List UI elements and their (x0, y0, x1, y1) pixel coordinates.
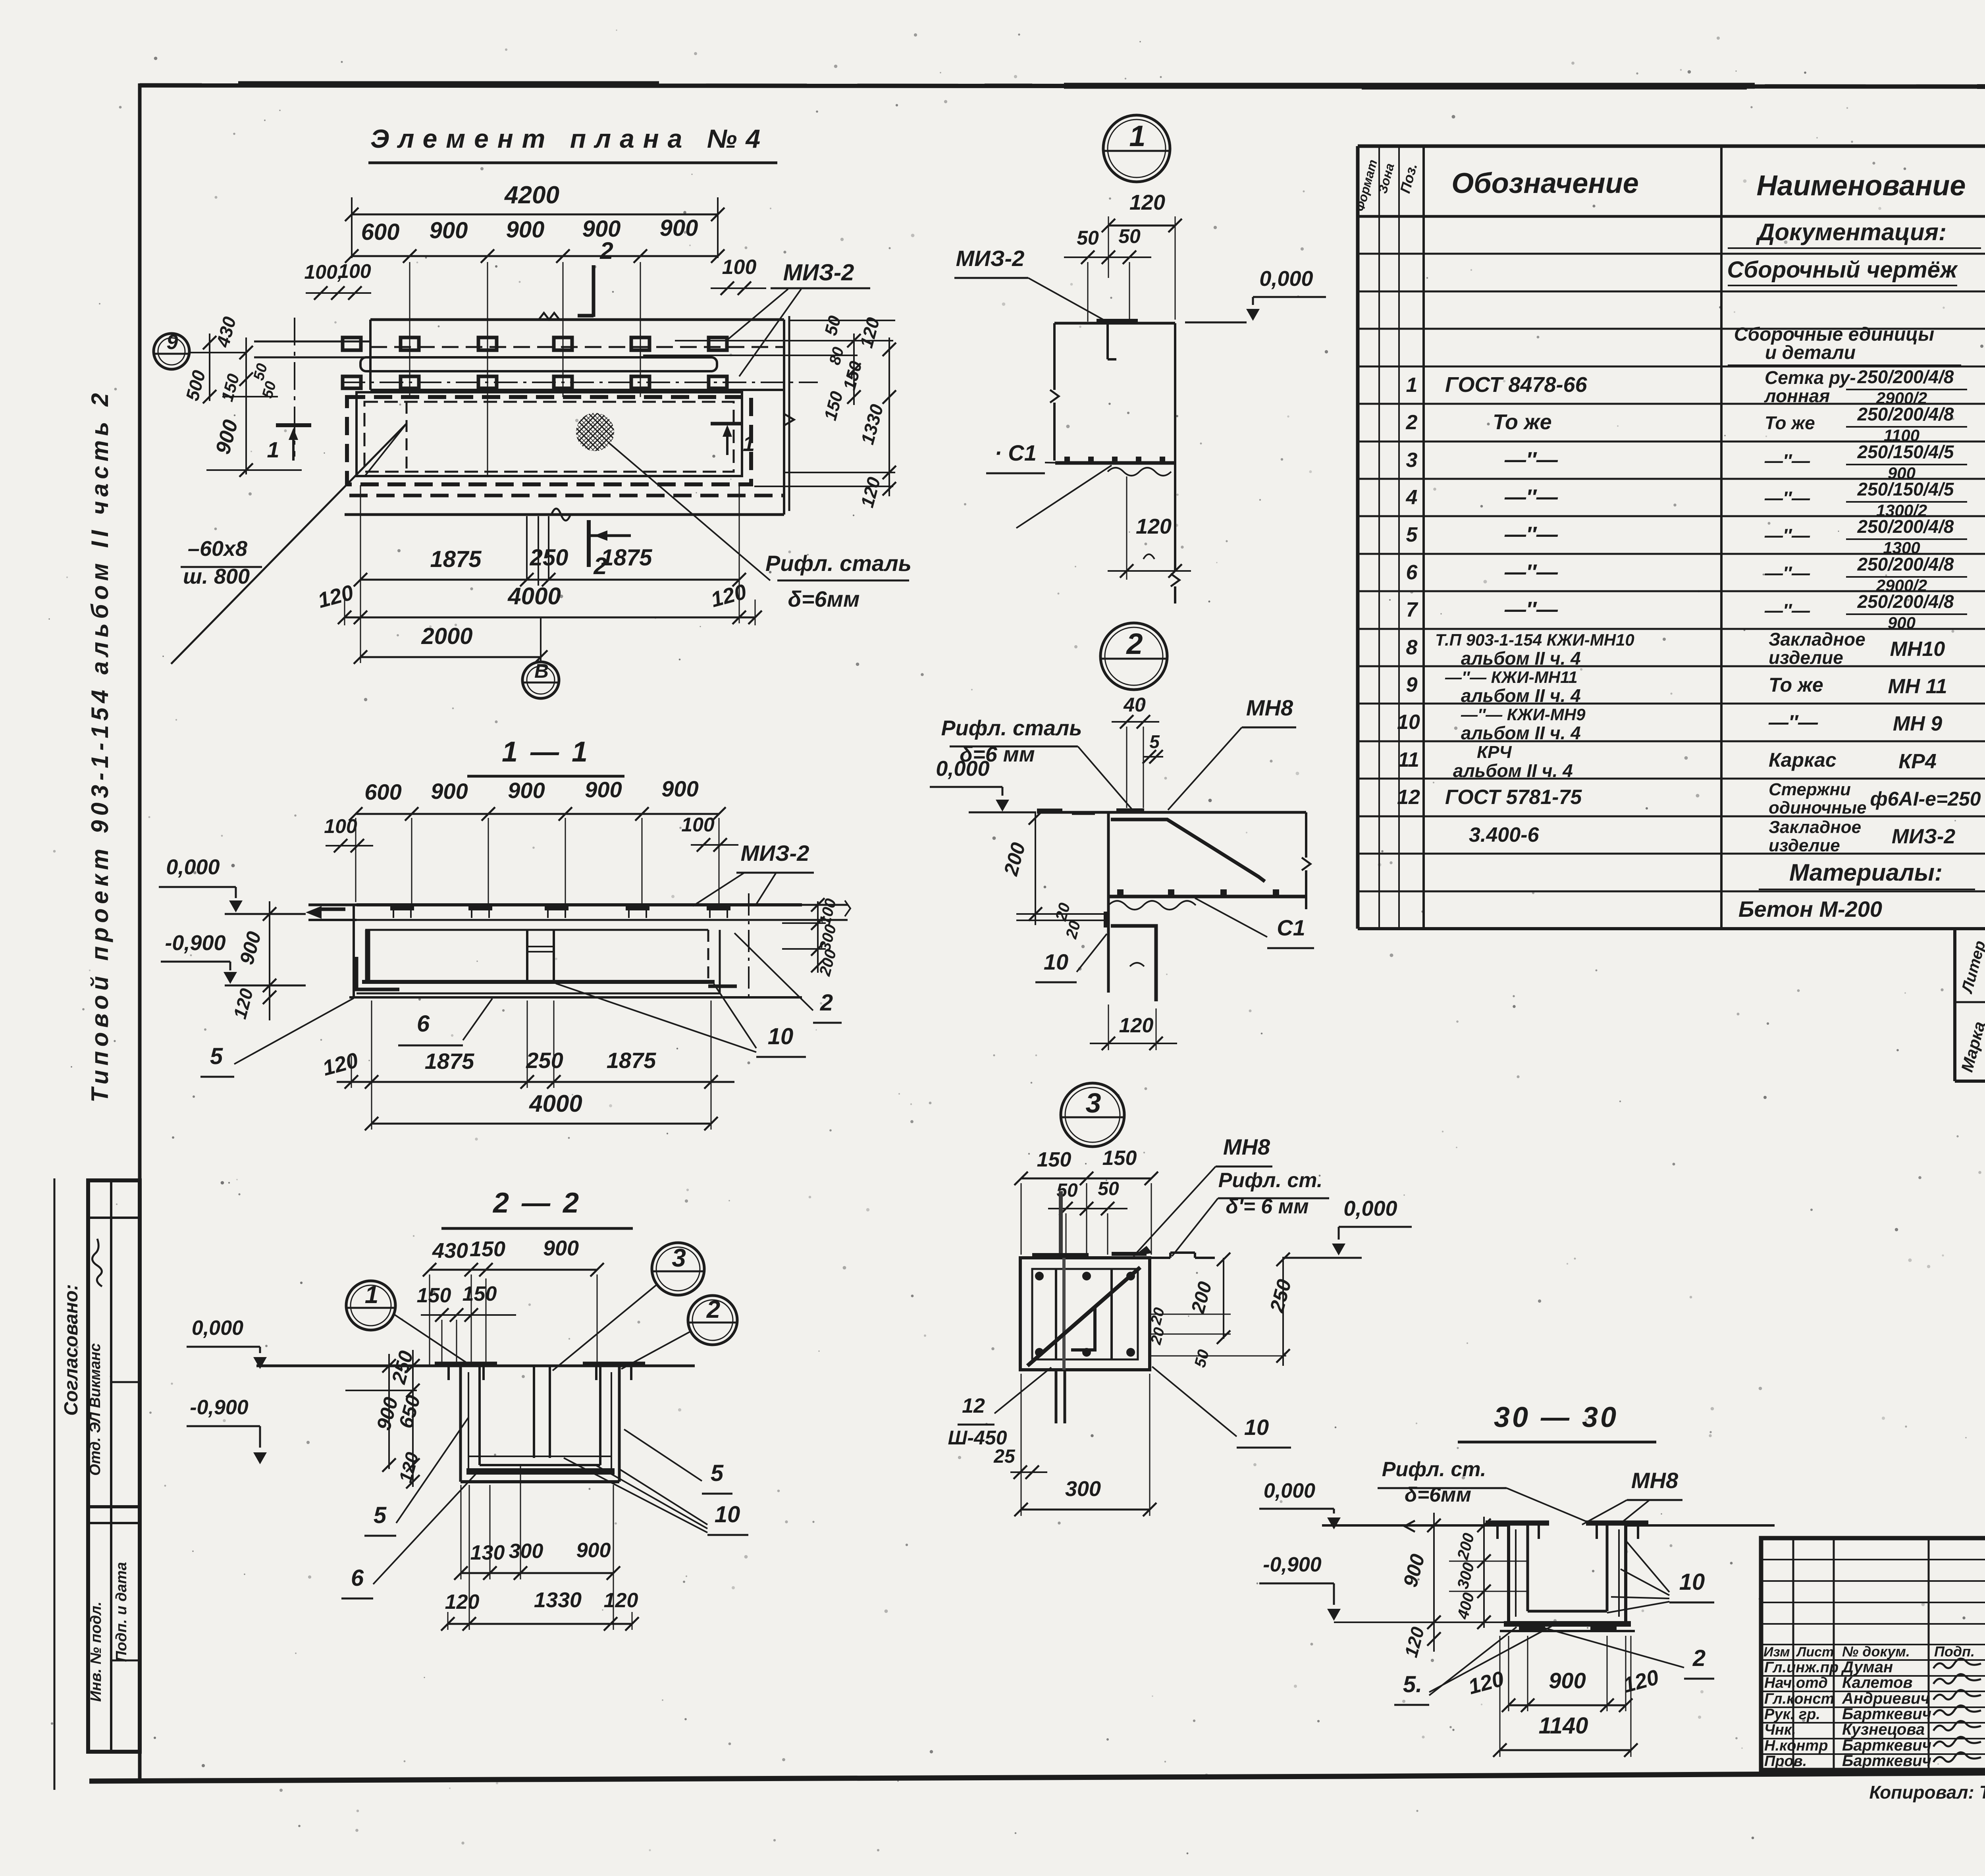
s30 level 0.000 (1259, 1479, 1341, 1529)
plan dim 2000 label (421, 623, 472, 649)
d1 dim 50 50 labels (1077, 225, 1141, 249)
s11 level -0.900 text (165, 931, 225, 955)
title block header row (1763, 1643, 1985, 1660)
s22 top plates (435, 1364, 645, 1380)
svg-text:10: 10 (1244, 1415, 1269, 1440)
svg-text:Барткевич: Барткевич (1842, 1737, 1931, 1754)
d2 leader 10 (1077, 934, 1107, 972)
s30 bottom extensions (1500, 1535, 1631, 1757)
s30 leaders МН8 (1582, 1500, 1650, 1525)
table header Поз (1397, 162, 1420, 195)
detail circle 3 (1061, 1083, 1124, 1147)
s22 left horizontals (222, 1366, 480, 1464)
axis circle В (522, 660, 559, 698)
svg-text:100,: 100, (304, 261, 343, 283)
marks label Марка (1958, 1020, 1985, 1074)
svg-text:МН 9: МН 9 (1893, 712, 1942, 735)
plan dim 600-900 labels (361, 215, 698, 245)
svg-text:Закладное: Закладное (1769, 817, 1861, 837)
table row Сборочный чертёж (1727, 257, 1958, 285)
svg-text:100: 100 (681, 814, 715, 836)
s30 label МН8 (1627, 1468, 1682, 1500)
svg-text:—″—: —″— (1764, 600, 1810, 621)
stamp text Инв № подл (88, 1602, 104, 1702)
s22 level -0.900 mark (187, 1426, 267, 1464)
s11 dim 4000 line (365, 1117, 718, 1130)
s22 level -0.900 text (190, 1396, 249, 1419)
svg-text:Кузнецова: Кузнецова (1842, 1721, 1925, 1738)
svg-text:600: 600 (364, 779, 401, 804)
svg-text:900: 900 (660, 215, 698, 241)
table row poz11 (1398, 742, 1985, 781)
detail circle 2 (1100, 623, 1167, 690)
svg-text:Сетка ру-: Сетка ру- (1765, 367, 1856, 388)
svg-text:0,000: 0,000 (192, 1317, 243, 1340)
s11 leaders 10 (556, 983, 756, 1052)
svg-text:МН8: МН8 (1246, 695, 1293, 720)
d2 leader Рифл (1078, 746, 1135, 812)
s30 leaders 10 fan (1607, 1541, 1669, 1613)
d3 level 0.000 (1332, 1197, 1412, 1255)
table row poz1 (1406, 366, 1985, 407)
svg-text:№ докум.: № докум. (1842, 1643, 1910, 1660)
s30 bottom plates (1519, 1626, 1617, 1630)
svg-text:Нач.отд: Нач.отд (1764, 1675, 1828, 1691)
s22 ground line (256, 1365, 695, 1367)
svg-text:5: 5 (711, 1460, 724, 1486)
svg-text:Подп.: Подп. (1934, 1643, 1975, 1660)
plan plates axis dashdot (341, 382, 818, 383)
d1 mesh dots (1064, 457, 1165, 462)
s11 bottom dim labels (320, 1048, 656, 1080)
frame bottom border line (89, 1770, 1985, 1781)
svg-text:4200: 4200 (504, 181, 559, 209)
svg-text:альбом II ч. 4: альбом II ч. 4 (1453, 760, 1573, 781)
plan dim extension verticals (345, 485, 755, 663)
s22 bottom dim row2 line (441, 1617, 639, 1631)
d1 wall left edge (1050, 323, 1059, 461)
s11 right dash-dot axis (748, 893, 750, 1003)
svg-text:4000: 4000 (507, 583, 561, 609)
s22 label 10 (707, 1502, 748, 1535)
plan dim 4000 label (507, 583, 561, 609)
s30 dim 1140 line (1493, 1743, 1638, 1757)
d1 wall top line (1054, 322, 1175, 325)
svg-text:1: 1 (1406, 374, 1418, 397)
svg-text:Наименование: Наименование (1757, 170, 1966, 202)
s30 lower ref line (1334, 1621, 1505, 1623)
svg-text:2000: 2000 (421, 623, 472, 649)
svg-text:Рифл. сталь: Рифл. сталь (765, 551, 912, 576)
svg-text:0,000: 0,000 (1264, 1479, 1315, 1502)
stamp text Подп и дата (113, 1562, 130, 1662)
svg-text:5: 5 (210, 1043, 223, 1069)
plan dim 100 left line (306, 286, 371, 300)
svg-text:Т.П 903-1-154 КЖИ-МН10: Т.П 903-1-154 КЖИ-МН10 (1435, 630, 1634, 649)
svg-text:МН10: МН10 (1890, 638, 1945, 661)
footer Копировал (1869, 1782, 1985, 1803)
s22 top dim line (423, 1263, 604, 1276)
table row poz5 (1406, 516, 1985, 557)
d2 slab top line (1037, 811, 1306, 814)
svg-text:одиночные: одиночные (1769, 798, 1867, 817)
svg-text:—″—: —″— (1764, 563, 1810, 583)
svg-text:Материалы:: Материалы: (1789, 859, 1943, 886)
plan lower dashed line (349, 494, 784, 497)
d2 dim 120 bottom (1090, 1005, 1177, 1050)
svg-text:Лист: Лист (1796, 1645, 1834, 1660)
svg-text:МИЗ-2: МИЗ-2 (1892, 825, 1955, 848)
s22 pit slot walls (534, 1366, 550, 1458)
svg-text:1875: 1875 (601, 545, 652, 571)
s22 bottom dim row2 labels (445, 1588, 638, 1614)
plan trench solid outline (357, 392, 742, 476)
s11 left console (306, 905, 357, 920)
svg-text:120: 120 (445, 1591, 480, 1614)
table row Бетон М-200 (1738, 895, 1985, 924)
svg-text:5.: 5. (1403, 1672, 1422, 1697)
axis circle 3 (652, 1243, 704, 1295)
svg-text:1 — 1: 1 — 1 (502, 736, 590, 768)
s11 bottom dim line (337, 1075, 734, 1089)
s30 ground line left (1322, 1524, 1509, 1527)
svg-text:30 — 30: 30 — 30 (1494, 1402, 1619, 1433)
svg-text:ГОСТ 8478-66: ГОСТ 8478-66 (1445, 373, 1588, 397)
s11 left dim vertical (263, 901, 276, 1020)
stamp text Согласовано (61, 1284, 82, 1416)
svg-text:100: 100 (722, 256, 757, 279)
s22 left dim lines (345, 1350, 420, 1488)
svg-text:10: 10 (715, 1502, 740, 1527)
s11 right dashed vertical (707, 930, 709, 982)
title block signature rows (1764, 1658, 1981, 1770)
s22 bottom extensions (448, 1465, 632, 1630)
svg-text:МН8: МН8 (1631, 1468, 1679, 1493)
d3 box outer (1020, 1258, 1150, 1370)
s30 leader 2 (1541, 1627, 1684, 1668)
table header Формат (1353, 158, 1380, 213)
svg-text:Андриевич: Андриевич (1842, 1690, 1930, 1707)
d2 leader МН8 (1168, 727, 1242, 810)
d1 dim 120 bottom (1108, 476, 1191, 580)
svg-text:250/200/4/8: 250/200/4/8 (1857, 366, 1954, 387)
detail circle 1 (1103, 115, 1170, 182)
plan right edge extension (784, 316, 794, 511)
svg-text:8: 8 (1406, 636, 1418, 659)
svg-text:0,000: 0,000 (936, 757, 989, 781)
svg-text:альбом II ч. 4: альбом II ч. 4 (1461, 723, 1581, 743)
s11 level -0.900 ref line (225, 985, 306, 987)
svg-text:Сборочный чертёж: Сборочный чертёж (1727, 257, 1958, 283)
plan leader МИЗ-2 a (727, 289, 788, 340)
s22 dim 150 150 line (421, 1308, 516, 1322)
plan title (370, 124, 769, 153)
svg-text:КР4: КР4 (1898, 750, 1937, 773)
plan section mark 2 top (578, 237, 613, 317)
svg-text:5: 5 (1406, 523, 1418, 546)
svg-text:6: 6 (351, 1565, 364, 1591)
svg-text:Каркас: Каркас (1769, 749, 1837, 771)
d3 leader 12 (994, 1367, 1051, 1413)
svg-text:2: 2 (820, 990, 833, 1016)
svg-text:0,000: 0,000 (1343, 1197, 1397, 1220)
svg-text:и детали: и детали (1765, 342, 1856, 363)
plan label МИЗ-2 (783, 260, 854, 285)
s11 grid verticals (356, 818, 719, 904)
svg-text:6: 6 (417, 1011, 430, 1037)
svg-text:50: 50 (1077, 227, 1099, 249)
svg-text:1875: 1875 (425, 1049, 474, 1074)
leader circle 2 (621, 1331, 692, 1369)
svg-text:МН 11: МН 11 (1888, 675, 1947, 698)
svg-text:Бетон М-200: Бетон М-200 (1738, 897, 1882, 922)
svg-text:альбом II ч. 4: альбом II ч. 4 (1461, 685, 1581, 706)
d3 dim 250 line (1276, 1253, 1290, 1366)
table row poz9 (1406, 668, 1985, 706)
s11 leader 2 (734, 933, 813, 1010)
s30 left dim line (1427, 1513, 1441, 1652)
section mark 1 left (267, 425, 311, 462)
s11 label 6 (398, 1011, 463, 1045)
plan hatched steel patch (576, 413, 614, 451)
d1 label МИЗ-2 (954, 246, 1028, 278)
axis 9 leader (190, 352, 246, 353)
d2 leader С1 (1195, 898, 1267, 937)
axis В stem (540, 617, 542, 662)
s22 bottom dim row1 line (454, 1566, 620, 1580)
s11 right dims rotated (816, 897, 840, 978)
s30 floor bold (1504, 1621, 1631, 1627)
svg-text:250/200/4/8: 250/200/4/8 (1857, 404, 1954, 424)
svg-text:Копировал: Тук: Копировал: Тук (1869, 1782, 1985, 1803)
s11 dim 4000 label (529, 1090, 582, 1117)
s11 leader 6 (463, 999, 492, 1040)
svg-text:10: 10 (1679, 1569, 1705, 1595)
svg-text:2 — 2: 2 — 2 (492, 1187, 581, 1219)
d3 dim 150 150 line (1014, 1172, 1158, 1185)
svg-text:250/200/4/8: 250/200/4/8 (1857, 516, 1954, 537)
s22 dim extensions top (430, 1274, 597, 1366)
s11 level -0.900 mark (161, 962, 237, 984)
svg-text:ГОСТ 5781-75: ГОСТ 5781-75 (1445, 786, 1582, 809)
plan dim 2000 line (354, 650, 547, 664)
table row poz2 (1406, 404, 1985, 445)
d1 leader МИЗ-2 (1028, 278, 1107, 322)
s11 right inner vertical (719, 930, 721, 993)
stamp text Отд ЭЛ (87, 1343, 104, 1476)
d1 leader C1 diag (1016, 465, 1112, 528)
s11 label 10 (756, 1024, 806, 1057)
svg-text:δ=6мм: δ=6мм (788, 586, 860, 611)
d3 rebar dots (1035, 1272, 1135, 1357)
s11 pit floor top bold (362, 980, 715, 984)
marks label Литер (1958, 939, 1985, 995)
svg-text:ф6АI-е=250: ф6АI-е=250 (1870, 788, 1981, 810)
svg-text:—″—: —″— (1504, 560, 1558, 584)
plan long embed bar (360, 357, 717, 371)
s22 label 5 left (364, 1502, 396, 1536)
frame left border line (138, 83, 142, 1781)
svg-text:600: 600 (361, 219, 400, 245)
svg-text:7: 7 (1406, 598, 1418, 621)
svg-text:МИЗ-2: МИЗ-2 (741, 841, 809, 866)
s30 label 10 (1669, 1569, 1714, 1602)
d2 label С1 (1267, 915, 1314, 948)
plan bottom break mark (551, 509, 570, 521)
svg-text:—″—: —″— (1504, 485, 1558, 509)
svg-text:То же: То же (1493, 410, 1552, 434)
svg-text:Согласовано:: Согласовано: (61, 1284, 82, 1416)
svg-text:0,000: 0,000 (1259, 267, 1313, 291)
s11 label МИЗ-2 underline (736, 872, 814, 874)
d1 dim 120 bottom label (1136, 515, 1172, 538)
plan grid axis line 1-1 cut (294, 318, 295, 457)
d3 small dim lines (1150, 1314, 1286, 1356)
svg-text:900: 900 (1888, 613, 1916, 632)
svg-text:1875: 1875 (607, 1048, 656, 1073)
svg-text:2: 2 (599, 237, 613, 264)
svg-text:300: 300 (509, 1540, 543, 1563)
svg-text:900: 900 (543, 1236, 579, 1260)
plan right dim outer line (883, 337, 896, 496)
d1 wall right edge (1171, 323, 1179, 603)
plan label Рифл сталь (765, 551, 912, 611)
plan dim 1875-250-1875 labels (430, 545, 652, 572)
d3 label 12 (948, 1394, 1007, 1449)
plan bottom line (345, 513, 784, 516)
d3 diagonal bar (1027, 1267, 1140, 1366)
d3 dim 300 (1014, 1374, 1156, 1516)
plan right edge (783, 320, 785, 515)
s11 dim line 600-900 (349, 807, 726, 821)
svg-text:Барткевич: Барткевич (1842, 1705, 1931, 1723)
svg-text:2: 2 (1406, 411, 1418, 434)
svg-text:250/200/4/8: 250/200/4/8 (1857, 554, 1954, 575)
svg-text:12: 12 (962, 1394, 985, 1417)
svg-text:300: 300 (1065, 1477, 1101, 1501)
table row poz3 (1406, 442, 1985, 482)
s30 pit bottom (1528, 1610, 1607, 1613)
d3 inner verticals (1056, 1269, 1112, 1359)
s11 middle slot (527, 930, 554, 982)
s11 dim 900 rotated (235, 929, 266, 967)
s11 dim 100 lines (326, 838, 738, 852)
d3 dim extensions (1021, 1183, 1151, 1255)
plan trench dashed partition (406, 402, 408, 476)
svg-text:Чнк.: Чнк. (1764, 1722, 1796, 1738)
s30 leader Рифл (1469, 1488, 1592, 1524)
s22 leader 6 (373, 1469, 480, 1584)
svg-text:—″—: —″— (1764, 488, 1810, 508)
s11 dim labels 600-900 (364, 776, 698, 804)
s30 dim 900 rotated (1399, 1552, 1429, 1589)
s30 dim 120 rotated (1400, 1625, 1428, 1660)
plan dim 4200 label (504, 181, 559, 209)
s11 pit top line (365, 929, 708, 931)
plan left horizontals (206, 397, 302, 470)
s30 label Рифл underline (1378, 1487, 1507, 1489)
d3 level line (1282, 1257, 1362, 1259)
svg-text:50: 50 (1098, 1178, 1119, 1199)
d1 dim 50 50 line (1064, 251, 1151, 322)
d3 leader МН8 (1133, 1166, 1216, 1256)
d3 top plate left (1032, 1253, 1089, 1258)
s22 dim 150 150 labels (417, 1282, 497, 1307)
svg-text:—″— КЖИ-МН9: —″— КЖИ-МН9 (1461, 705, 1586, 724)
svg-text:—″—: —″— (1764, 450, 1810, 471)
svg-text:1: 1 (1129, 120, 1145, 152)
s22 pit left wall (461, 1366, 480, 1482)
svg-text:5: 5 (1149, 731, 1160, 752)
svg-text:3: 3 (1086, 1087, 1101, 1118)
svg-text:альбом II ч. 4: альбом II ч. 4 (1461, 648, 1581, 669)
s22 top dim labels (432, 1236, 579, 1263)
svg-text:изделие: изделие (1769, 836, 1840, 855)
axis circle 2 (688, 1296, 737, 1345)
table row poz4 (1406, 479, 1985, 520)
s11 left L-bar (357, 957, 399, 989)
plan leader МИЗ-2 b (739, 289, 801, 376)
s11 leader 5 (234, 998, 354, 1064)
d3 dim 200 line (1217, 1253, 1230, 1344)
plan dim 100 right line (711, 281, 766, 295)
d3 label Рифл ст (1218, 1169, 1323, 1218)
table header Зона (1375, 162, 1397, 195)
svg-text:1330: 1330 (534, 1588, 582, 1612)
svg-text:Рук. гр.: Рук. гр. (1764, 1706, 1820, 1723)
svg-text:10: 10 (1044, 949, 1068, 974)
d2 L-bar (1111, 926, 1156, 1001)
svg-text:150: 150 (463, 1282, 497, 1305)
s22 wall inner lining (468, 1372, 611, 1469)
s30 floor bottom line (1500, 1630, 1635, 1632)
plan vertical grid lines (410, 262, 640, 476)
svg-text:900: 900 (506, 217, 545, 243)
s11 level 0.000 mark (159, 887, 243, 912)
svg-text:Элемент плана №4: Элемент плана №4 (370, 124, 769, 153)
svg-text:3: 3 (672, 1244, 686, 1272)
table row Материалы (1759, 859, 1975, 889)
plan right dim inner line (847, 334, 861, 405)
svg-text:Барткевич: Барткевич (1842, 1752, 1931, 1770)
section 2-2 title (492, 1187, 581, 1219)
s30 label 5 (1394, 1672, 1429, 1705)
plan left edge (369, 320, 372, 390)
s11 level 0.000 ref line (225, 913, 306, 915)
svg-text:130: 130 (470, 1541, 505, 1564)
svg-text:150: 150 (1037, 1148, 1072, 1171)
svg-text:900: 900 (430, 218, 468, 243)
d2 dim 200 rotated (999, 840, 1029, 878)
s11 slab right extension (802, 900, 850, 920)
table row 3.400-6 (1469, 817, 1985, 855)
svg-text:2: 2 (706, 1296, 720, 1323)
svg-text:120: 120 (1119, 1014, 1154, 1037)
svg-text:Рифл. ст.: Рифл. ст. (1218, 1169, 1323, 1192)
d2 level 0.000 (930, 757, 1009, 812)
svg-text:900: 900 (585, 777, 622, 802)
d1 mesh break squiggle (1108, 468, 1171, 476)
svg-text:-0,900: -0,900 (165, 931, 225, 955)
s22 level 0.000 text (192, 1317, 243, 1340)
svg-text:лонная: лонная (1764, 386, 1830, 406)
svg-text:· С1: · С1 (994, 440, 1037, 465)
d2 slab right edge (1302, 812, 1310, 909)
d3 dim 250 rotated (1265, 1277, 1295, 1315)
svg-text:С1: С1 (1277, 915, 1305, 940)
svg-text:Рифл. сталь: Рифл. сталь (941, 716, 1082, 740)
d1 embed plate (1097, 322, 1138, 359)
